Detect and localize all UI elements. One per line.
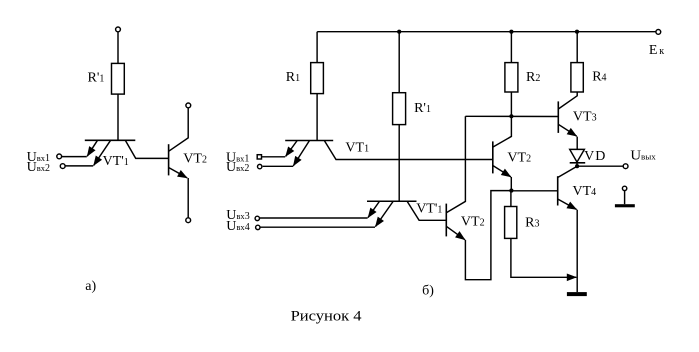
- svg-text:Uвх4: Uвх4: [226, 219, 249, 234]
- transistor VT2 lower collector: [446, 116, 465, 212]
- transistor VT4 collector: [558, 166, 577, 177]
- resistor R2: [505, 63, 518, 92]
- svg-text:VT2: VT2: [507, 151, 531, 166]
- node dot rail-R'1: [397, 30, 401, 34]
- transistor VT4 base bar: [557, 176, 559, 205]
- wire: [576, 210, 578, 292]
- wire node line y116: [465, 115, 558, 117]
- wire: [62, 156, 87, 158]
- resistor R'1 (a): [112, 63, 125, 94]
- wire: [316, 94, 318, 141]
- svg-text:VD: VD: [584, 149, 606, 164]
- wire: [316, 32, 318, 63]
- terminal Uвых: [623, 164, 628, 169]
- ground terminal bar: [615, 204, 635, 207]
- svg-text:R'1: R'1: [414, 101, 431, 116]
- wire: [263, 165, 294, 167]
- transistor VT'1 (b) emitter 2: [375, 201, 393, 226]
- transistor VT2 upper emitter: [493, 166, 511, 177]
- svg-text:Uвх2: Uвх2: [226, 160, 249, 175]
- terminal ground ref circle: [622, 186, 626, 190]
- wire: [576, 163, 578, 166]
- transistor VT'1 (a) emitter 1: [87, 140, 97, 156]
- svg-text:Uвых: Uвых: [630, 149, 656, 164]
- transistor VT1 emitter 2: [293, 141, 309, 166]
- transistor VT2 (a) base bar: [168, 144, 170, 175]
- transistor VT2 upper (b) base bar: [492, 141, 494, 173]
- svg-text:б): б): [422, 283, 434, 298]
- wire: [117, 32, 119, 64]
- svg-text:VT2: VT2: [183, 152, 207, 167]
- diode VD triangle: [570, 149, 585, 162]
- node dot output: [575, 164, 579, 168]
- terminal Ек: [656, 30, 661, 35]
- wire output: [577, 165, 623, 167]
- node dot rail-R2: [509, 30, 513, 34]
- wire R3 bottom: [511, 238, 576, 277]
- wire R3 top lead: [510, 191, 512, 207]
- terminal top a: [116, 27, 121, 32]
- terminal Uвх1 (b): [257, 155, 261, 159]
- terminal emitter VT2 (a): [186, 218, 191, 223]
- svg-text:VT4: VT4: [573, 184, 597, 199]
- wire R2 branch: [510, 32, 512, 63]
- svg-text:VT'1: VT'1: [416, 202, 442, 217]
- resistor R1: [311, 63, 324, 94]
- transistor VT'1 (b) base bar: [367, 200, 417, 202]
- transistor VT'1 (a) collector: [125, 140, 168, 158]
- transistor VT1 base bar: [285, 140, 333, 142]
- transistor VT2 (a) collector: [169, 108, 189, 152]
- transistor VT1 collector: [324, 141, 493, 160]
- wire: [65, 165, 93, 167]
- svg-text:Uвх2: Uвх2: [27, 160, 50, 175]
- svg-text:VT1: VT1: [345, 141, 369, 156]
- transistor VT'1 (b) collector: [407, 201, 446, 220]
- wire U path: [465, 191, 511, 280]
- terminal Uвх4: [256, 225, 260, 229]
- svg-text:R'1: R'1: [88, 71, 105, 86]
- svg-text:а): а): [85, 279, 96, 294]
- terminal Uвх1 (a): [57, 154, 62, 159]
- svg-text:VT'1: VT'1: [103, 154, 129, 169]
- wire: [260, 226, 375, 228]
- wire: [576, 137, 578, 150]
- svg-text:VT2: VT2: [461, 215, 485, 230]
- transistor VT4 emitter: [558, 199, 577, 210]
- node dot base VT4: [509, 189, 513, 193]
- svg-text:R2: R2: [526, 70, 540, 85]
- transistor VT2 (a) emitter: [169, 168, 188, 178]
- wire: [262, 156, 286, 158]
- node dot R2-collector junction: [509, 114, 513, 118]
- wire VT4 base: [511, 190, 557, 192]
- svg-text:R3: R3: [525, 215, 539, 230]
- svg-text:Рисунок 4: Рисунок 4: [291, 308, 363, 324]
- svg-text:R1: R1: [286, 70, 300, 85]
- resistor R'1 (b): [393, 93, 406, 125]
- terminal Uвх2 (a): [60, 164, 65, 169]
- transistor VT1 emitter 1: [286, 141, 298, 157]
- terminal collector VT2 (a): [186, 103, 191, 108]
- transistor VT2 upper collector: [493, 92, 512, 147]
- wire: [187, 178, 189, 218]
- transistor VT2 lower (b) base bar: [445, 204, 447, 237]
- terminal Uвх3: [255, 216, 259, 220]
- wire: [260, 217, 368, 219]
- wire: [117, 94, 119, 140]
- resistor R4: [571, 63, 583, 92]
- transistor VT3 emitter: [558, 124, 576, 136]
- ground main: [567, 292, 587, 296]
- transistor VT'1 (a) emitter 2: [94, 140, 111, 165]
- wire: [624, 191, 626, 205]
- node dot rail-R4: [575, 30, 579, 34]
- svg-text:Ек: Ек: [649, 43, 666, 58]
- wire: [398, 125, 400, 202]
- svg-text:VT3: VT3: [573, 110, 597, 125]
- transistor VT'1 (b) emitter 1: [368, 201, 380, 217]
- diode VD cathode bar: [570, 162, 586, 164]
- wire R'1 branch top: [398, 32, 400, 93]
- transistor VT3 collector: [558, 92, 577, 109]
- wire R4 branch: [576, 32, 578, 63]
- transistor VT3 base bar: [557, 101, 559, 132]
- power rail: [317, 31, 656, 33]
- transistor VT'1 (a) base bar: [85, 139, 136, 141]
- transistor VT2 lower emitter: [446, 226, 465, 240]
- svg-text:R4: R4: [592, 70, 606, 85]
- terminal Uвх2 (b): [258, 164, 262, 168]
- resistor R3: [505, 207, 517, 239]
- wire: [510, 177, 512, 191]
